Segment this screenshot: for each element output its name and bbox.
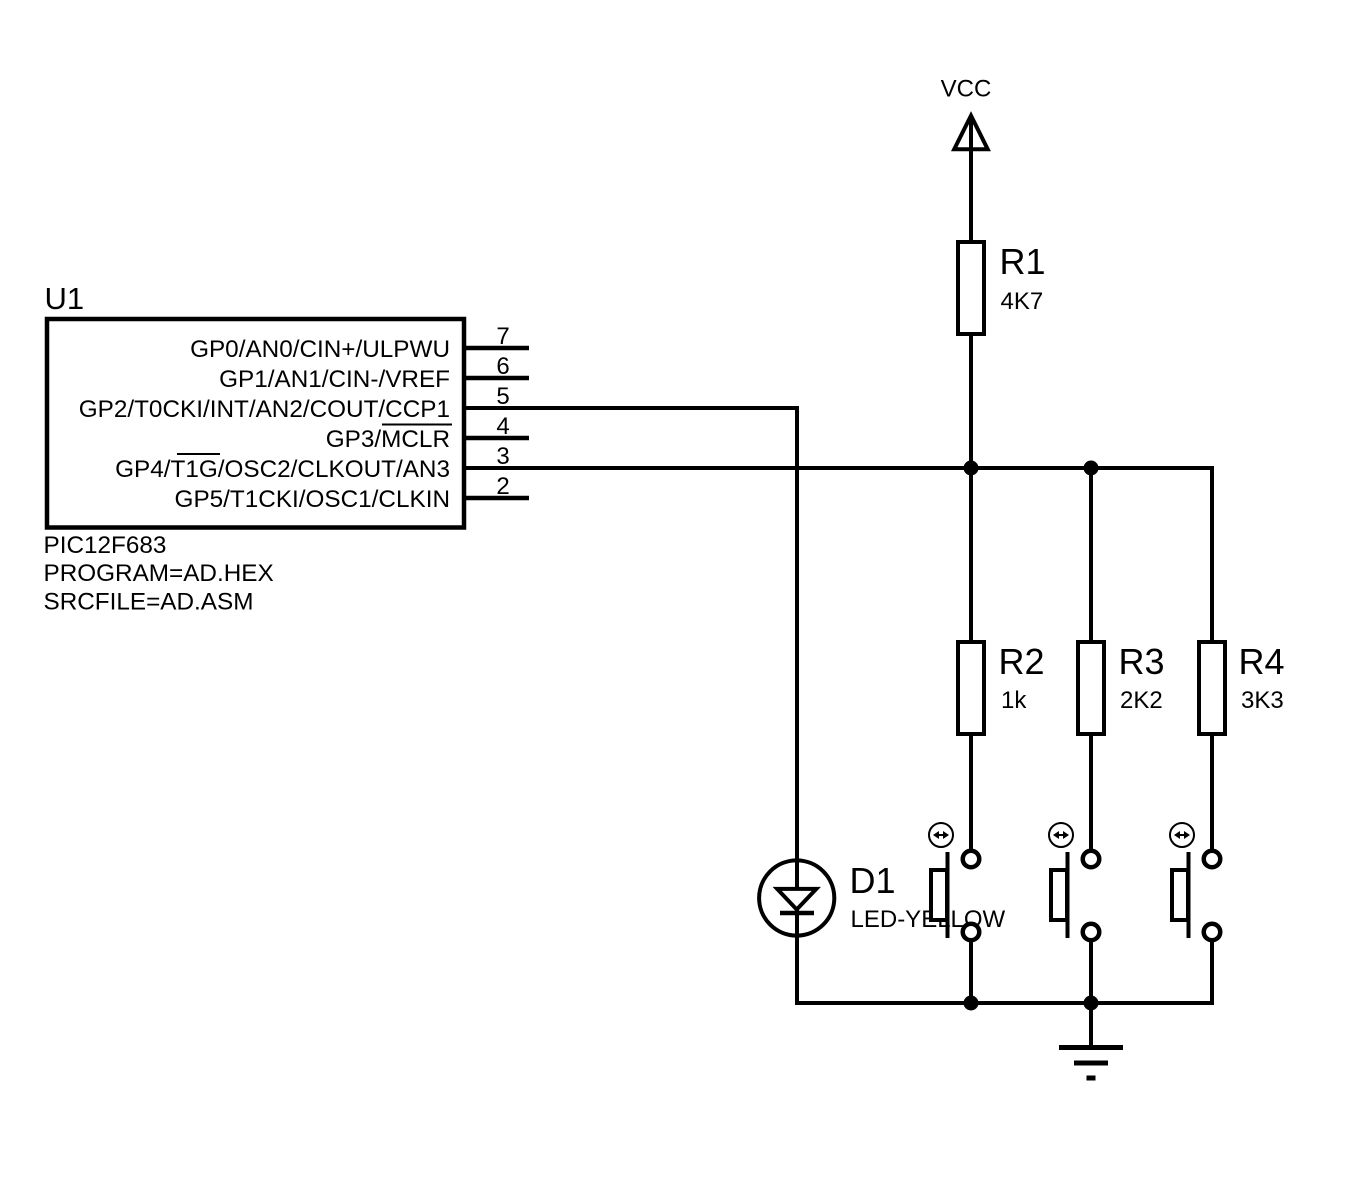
svg-text:PROGRAM=AD.HEX: PROGRAM=AD.HEX: [44, 560, 274, 587]
resistor R2: [958, 642, 984, 734]
wire VCC to R1: [969, 118, 973, 243]
pin 7 stub: [464, 346, 529, 351]
svg-text:R4: R4: [1239, 641, 1285, 682]
IC U1 PIC12F683: [47, 319, 464, 528]
junction node on pin3 bus at R2 column: [964, 461, 979, 476]
svg-text:4: 4: [496, 413, 509, 440]
wire R4 to button: [1210, 734, 1214, 850]
svg-text:4K7: 4K7: [1001, 288, 1044, 315]
ground: [1059, 1003, 1123, 1078]
push button SW at R3 column: [1049, 823, 1099, 940]
junction node on pin3 bus at R3 column: [1084, 461, 1099, 476]
wire pin5 net: IC pin5 right, down through D1, bottom bus to R4 riser: [464, 408, 1212, 1003]
junction node on bottom bus at R2 column: [964, 996, 979, 1011]
svg-text:3: 3: [496, 443, 509, 470]
wire R3 to button: [1089, 734, 1093, 850]
svg-text:LED-YELLOW: LED-YELLOW: [851, 906, 1006, 933]
svg-text:6: 6: [496, 353, 509, 380]
svg-text:R1: R1: [1000, 241, 1046, 282]
overline T1G: [177, 453, 220, 455]
wire node to R2: [969, 468, 973, 642]
wire button to bottom bus (R3 column): [1089, 941, 1093, 1003]
wire node to R3: [1089, 468, 1093, 642]
resistor R1: [958, 242, 984, 334]
push button SW at R2 column: [929, 823, 979, 940]
svg-text:GP2/T0CKI/INT/AN2/COUT/CCP1: GP2/T0CKI/INT/AN2/COUT/CCP1: [79, 396, 450, 423]
svg-text:5: 5: [496, 383, 509, 410]
svg-text:GP5/T1CKI/OSC1/CLKIN: GP5/T1CKI/OSC1/CLKIN: [175, 486, 450, 513]
svg-text:3K3: 3K3: [1241, 687, 1284, 714]
wire button to bottom bus (R2 column): [969, 941, 973, 1003]
svg-text:R3: R3: [1119, 641, 1165, 682]
wire R1 to node: [969, 334, 973, 470]
pin 6 stub: [464, 376, 529, 381]
resistor R4: [1199, 642, 1225, 734]
svg-text:GP0/AN0/CIN+/ULPWU: GP0/AN0/CIN+/ULPWU: [190, 336, 450, 363]
pin 4 stub: [464, 436, 529, 441]
svg-text:PIC12F683: PIC12F683: [44, 532, 167, 559]
pin 2 stub: [464, 496, 529, 501]
svg-text:GP1/AN1/CIN-/VREF: GP1/AN1/CIN-/VREF: [219, 366, 450, 393]
power symbol VCC (arrow): [954, 116, 988, 150]
svg-text:1k: 1k: [1001, 687, 1027, 714]
LED D1: [759, 860, 1005, 937]
svg-text:SRCFILE=AD.ASM: SRCFILE=AD.ASM: [44, 589, 254, 616]
wire R2 to button: [969, 734, 973, 850]
svg-text:D1: D1: [850, 860, 896, 901]
svg-text:2K2: 2K2: [1120, 687, 1163, 714]
svg-text:2: 2: [496, 473, 509, 500]
resistor R3: [1078, 642, 1104, 734]
svg-text:VCC: VCC: [941, 76, 992, 103]
push button SW at R4 column: [1170, 823, 1220, 940]
svg-text:GP4/T1G/OSC2/CLKOUT/AN3: GP4/T1G/OSC2/CLKOUT/AN3: [115, 456, 450, 483]
wire pin3 net: IC pin3 right to R4 column, down to R4: [464, 468, 1212, 642]
svg-text:GP3/MCLR: GP3/MCLR: [326, 426, 450, 453]
junction node on bottom bus at ground: [1084, 996, 1099, 1011]
svg-text:7: 7: [496, 323, 509, 350]
overline MCLR: [382, 424, 452, 426]
svg-text:U1: U1: [45, 281, 85, 316]
svg-text:R2: R2: [999, 641, 1045, 682]
